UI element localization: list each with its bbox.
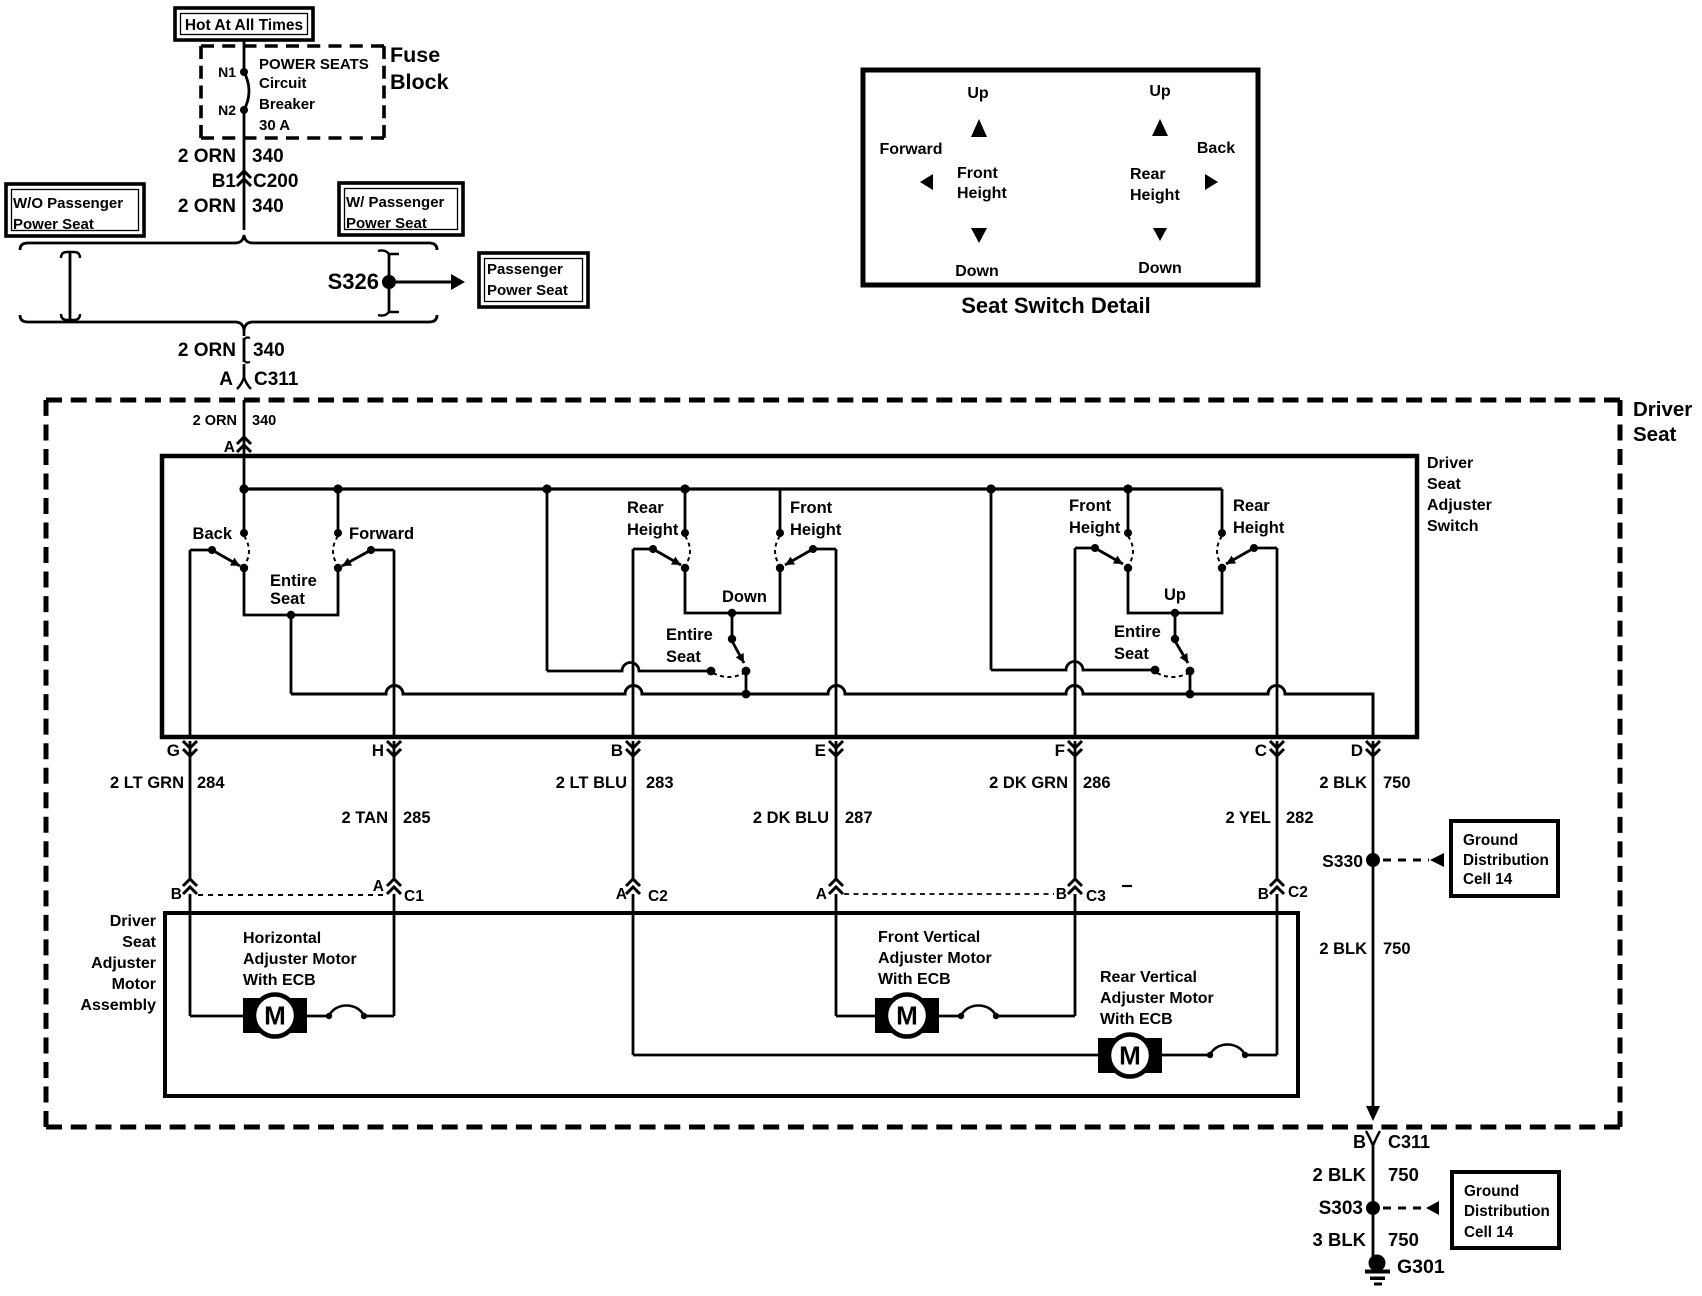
wire label 2 DK BLU 287 [753,809,873,827]
switch pin C [1255,741,1284,760]
svg-text:2 LT GRN: 2 LT GRN [110,774,184,792]
svg-text:2 ORN: 2 ORN [178,196,236,217]
switch linkage dashed (Rear Height up) [1217,536,1222,566]
wire 283: pin B to motor connector [632,741,635,879]
svg-text:Power Seat: Power Seat [13,216,94,233]
wire: group1 common drop [290,615,293,694]
label box: W/ Passenger Power Seat [339,183,463,235]
Entire Seat label (horizontal) [270,572,317,608]
switch pin D [1351,741,1380,760]
svg-text:C200: C200 [253,171,298,192]
switch pin F [1055,741,1082,760]
ECB (horizontal motor) [307,1006,394,1020]
back arrow [1205,174,1218,190]
wire label 2 ORN 340 (above C311) [178,340,285,361]
svg-text:Distribution: Distribution [1463,852,1549,869]
wire: down common to entire-seat switch [728,613,736,643]
wire label 2 BLK 750 (S330) [1319,940,1410,958]
wire label 2 ORN 340 (driver seat) [193,413,277,429]
svg-text:A: A [816,886,827,903]
ECB (front vertical motor) [939,1006,1075,1020]
svg-text:2 DK BLU: 2 DK BLU [753,809,829,827]
svg-text:B: B [611,741,623,760]
wire: down common U [681,564,784,617]
switch arm Rear Height down [649,545,681,565]
bus junction node (middle riser) [542,484,551,493]
svg-text:B1: B1 [212,171,237,192]
svg-text:285: 285 [403,809,431,827]
Entire Seat label (down) [666,626,713,666]
wire: arm to pin B [633,549,653,737]
switch arm Rear Height up [1226,544,1258,564]
wire: arm to pin F [1075,548,1095,737]
wire 286: pin F to motor connector [1074,741,1077,879]
svg-text:3 BLK: 3 BLK [1313,1229,1367,1250]
ground G301 label [1397,1256,1445,1278]
connector C1 pin A [373,878,424,905]
svg-text:Adjuster: Adjuster [1427,497,1492,514]
circuit breaker value label [259,56,369,134]
svg-text:Driver: Driver [1633,398,1692,421]
Horizontal Adjuster Motor With ECB label [243,930,357,989]
circuit breaker POWER SEATS 30A [240,68,249,114]
svg-text:Down: Down [1138,260,1182,277]
switch pin E [815,741,843,760]
svg-text:F: F [1055,741,1065,760]
svg-text:With ECB: With ECB [878,971,951,988]
wire: Back arm to pin G [190,550,212,737]
switch linkage dashed (Front Height down) [775,536,780,566]
wire: C2-A to rear vertical motor [633,894,1098,1055]
Forward contact label [349,525,414,543]
label box: W/O Passenger Power Seat [6,184,144,236]
wire: ECB to C2-B [1276,894,1279,1055]
ground G301 [1365,1255,1390,1286]
svg-text:Driver: Driver [110,913,156,930]
svg-text:282: 282 [1286,809,1314,827]
svg-text:With ECB: With ECB [1100,1011,1173,1028]
switch linkage dashed (Forward) [333,536,338,566]
pin N2 label [218,102,236,118]
svg-text:2 ORN: 2 ORN [178,146,236,167]
switch pin B [611,741,640,760]
connector C3 pin B [1056,879,1106,905]
svg-text:30 A: 30 A [259,117,290,134]
svg-text:B: B [1056,886,1067,903]
wire: bus to Front Height down contact [776,489,784,537]
svg-text:340: 340 [252,146,284,167]
svg-text:Height: Height [790,521,842,539]
bus junction node (Rear Height down) [680,484,689,493]
svg-text:Passenger: Passenger [487,261,563,278]
wire label 2 LT GRN 284 [110,774,225,792]
wire label 2 ORN 340 (below C200) [178,196,284,217]
svg-text:2 DK GRN: 2 DK GRN [989,774,1068,792]
svg-text:750: 750 [1388,1164,1419,1185]
wire: bus to Front Height up contact [1124,489,1132,537]
svg-text:A: A [616,886,627,903]
svg-text:Cell 14: Cell 14 [1463,871,1513,888]
bus junction node (Forward) [333,484,342,493]
connector C3 dashed link [844,893,1054,895]
wire 750: pin D to splice S330 [1372,741,1375,860]
dashed reference arrow to ground distribution [1383,853,1444,867]
switch arm Front Height down [785,545,817,565]
svg-text:284: 284 [197,774,225,792]
svg-text:Adjuster Motor: Adjuster Motor [878,950,992,967]
wire: up common U [1124,564,1226,617]
down arrow (rear) [1153,228,1167,241]
svg-text:Up: Up [1149,83,1171,100]
svg-text:Back: Back [1197,140,1235,157]
wire: breaker to C200 [243,110,246,230]
svg-text:2 YEL: 2 YEL [1225,809,1271,827]
svg-text:340: 340 [252,196,284,217]
Up label (front) [967,85,989,102]
Rear Vertical Adjuster Motor With ECB label [1100,969,1214,1028]
Front Vertical Adjuster Motor With ECB label [878,929,992,988]
svg-text:Seat: Seat [666,648,701,666]
svg-text:G: G [167,741,180,760]
Down label (rear) [1138,260,1182,277]
switch linkage dashed (Front Height up) [1128,536,1133,566]
svg-text:A: A [219,369,233,390]
fuse block name [390,43,449,94]
svg-text:Ground: Ground [1463,832,1518,849]
Up label (rear) [1149,83,1171,100]
horizontal adjuster motor M1 [243,995,307,1037]
fuse block dashed outline [201,46,384,138]
svg-text:Cell 14: Cell 14 [1464,1224,1514,1241]
wire: up common to entire-seat switch [1171,613,1179,643]
switch linkage dashed (Rear Height down) [685,536,690,566]
svg-text:2 ORN: 2 ORN [178,340,236,361]
svg-text:Seat: Seat [270,590,305,608]
wire: riser to entire-seat contact (down) [547,663,715,676]
svg-text:Height: Height [1069,519,1121,537]
svg-text:Seat: Seat [1633,423,1676,446]
wire: middle riser [546,489,549,671]
svg-text:Adjuster: Adjuster [91,955,156,972]
Up label [1164,586,1186,604]
wire: hot feed into circuit breaker [243,40,246,72]
svg-text:283: 283 [646,774,674,792]
Forward label [879,141,942,158]
svg-text:750: 750 [1383,940,1411,958]
svg-text:340: 340 [253,340,285,361]
svg-text:Circuit: Circuit [259,75,307,92]
svg-text:Height: Height [1130,187,1180,204]
svg-text:Front: Front [957,165,999,182]
wire 750: S330 to C311 pin B [1366,867,1380,1121]
svg-text:A: A [373,878,384,895]
label box: Passenger Power Seat [479,253,588,307]
svg-text:Forward: Forward [349,525,414,543]
svg-text:286: 286 [1083,774,1111,792]
wire label 2 DK GRN 286 [989,774,1110,792]
svg-text:Power Seat: Power Seat [487,282,568,299]
svg-text:Distribution: Distribution [1464,1203,1550,1220]
svg-text:Power Seat: Power Seat [346,215,427,232]
connector C311 pin B [1353,1131,1430,1152]
svg-text:750: 750 [1388,1229,1419,1250]
svg-text:W/ Passenger: W/ Passenger [346,194,445,211]
splice S326 connector stub [378,250,399,315]
wire: arm to pin E [813,549,836,737]
wire label 2 BLK 750 (upper) [1319,774,1410,792]
svg-text:Breaker: Breaker [259,96,315,113]
Rear Height label (down) [627,499,679,539]
connector C311 pin A [219,364,299,390]
switch arm entire seat (down) [732,641,750,675]
svg-text:Down: Down [722,588,767,606]
svg-text:POWER SEATS: POWER SEATS [259,56,369,73]
switch feed bus [244,487,1222,490]
svg-text:C3: C3 [1086,888,1106,905]
wire: Forward arm to pin H [371,550,394,737]
switch ground bus to pin D [291,686,1373,738]
Driver Seat name [1633,398,1692,446]
wire label 2 ORN 340 (above C200) [178,146,284,167]
wire: bus to Rear Height down contact [681,489,689,537]
svg-text:Entire: Entire [270,572,317,590]
svg-text:S330: S330 [1322,851,1363,871]
bus junction node (right riser) [986,484,995,493]
svg-text:B: B [1258,886,1269,903]
svg-text:Height: Height [957,185,1007,202]
svg-text:Front: Front [790,499,833,517]
rear vertical adjuster motor M3 [1098,1035,1162,1077]
svg-text:S303: S303 [1319,1198,1363,1219]
switch arm Forward [342,546,375,566]
svg-text:B: B [171,886,182,903]
in-line connector symbol (to C311) [244,338,250,363]
switch arm entire seat (up) [1175,641,1194,675]
wire 285: pin H to motor connector [393,741,396,879]
svg-text:Seat: Seat [1114,645,1149,663]
svg-text:E: E [815,741,826,760]
wire label 2 BLK 750 (lower) [1313,1164,1419,1185]
splice S303 [1319,1198,1380,1219]
svg-text:340: 340 [252,413,276,429]
svg-text:M: M [1119,1041,1141,1071]
wire: C1-B to horizontal motor [190,894,243,1016]
svg-text:With ECB: With ECB [243,972,316,989]
front vertical adjuster motor M2 [875,995,939,1037]
bus junction node (A feed) [239,484,248,493]
Down label [722,588,767,606]
svg-text:Up: Up [967,85,989,102]
svg-text:Ground: Ground [1464,1183,1519,1200]
Driver Seat Adjuster Switch outline [162,456,1417,737]
svg-text:N2: N2 [218,102,236,118]
bus junction node (Front Height up) [1123,484,1132,493]
svg-text:Adjuster Motor: Adjuster Motor [1100,990,1214,1007]
Back label [1197,140,1235,157]
wire 750: C311 to splice S303 [1372,1146,1375,1201]
svg-text:Seat: Seat [122,934,156,951]
svg-text:S326: S326 [328,269,379,294]
wire: right riser [990,489,993,670]
svg-text:Down: Down [955,263,999,280]
Back contact label [193,525,233,543]
Rear Height label (detail) [1130,166,1180,204]
connector C1 pin B [171,879,197,903]
wire: ECB to C1-A [393,894,396,1016]
switch arm Front Height up [1091,544,1123,564]
Seat Switch Detail title [961,293,1151,318]
Driver Seat harness dashed outline [46,400,1620,1127]
Driver Seat Adjuster Motor Assembly outline [165,913,1298,1096]
Entire Seat label (up) [1114,623,1161,663]
brace lower (wire options) [20,315,437,330]
down arrow (front) [971,228,987,243]
svg-text:M: M [264,1001,286,1031]
svg-text:Fuse: Fuse [390,43,440,67]
svg-text:C2: C2 [1288,884,1308,901]
wire: bus to Forward contact [334,489,342,537]
connector link mark [1122,885,1132,887]
switch linkage dashed (entire seat down) [713,673,744,677]
svg-text:Back: Back [193,525,233,543]
svg-text:Seat Switch Detail: Seat Switch Detail [961,293,1151,318]
svg-text:Horizontal: Horizontal [243,930,321,947]
svg-text:2 TAN: 2 TAN [342,809,388,827]
dashed reference arrow to ground distribution (S303) [1383,1201,1439,1215]
switch arm Back [208,546,240,566]
wire 284: pin G to motor connector [189,741,192,879]
svg-text:Up: Up [1164,586,1186,604]
svg-text:2 ORN: 2 ORN [193,413,237,429]
svg-text:750: 750 [1383,774,1411,792]
svg-text:Adjuster Motor: Adjuster Motor [243,951,357,968]
Driver Seat Adjuster Motor Assembly name [80,913,156,1014]
svg-text:C: C [1255,741,1267,760]
svg-text:Switch: Switch [1427,518,1479,535]
svg-text:Height: Height [627,521,679,539]
connector C3 pin A [816,879,843,903]
wire: entire-seat common U (group1) [240,564,342,619]
Down label (front) [955,263,999,280]
wire label 2 LT BLU 283 [556,774,674,792]
svg-text:2 BLK: 2 BLK [1313,1164,1367,1185]
wire: riser to entire-seat contact (up) [991,662,1159,675]
svg-text:Entire: Entire [666,626,713,644]
svg-text:2 BLK: 2 BLK [1319,940,1367,958]
pin N1 label [218,64,236,80]
switch pin H [372,741,401,760]
svg-text:D: D [1351,741,1363,760]
wire 287: pin E to motor connector [835,741,838,879]
connector C1 dashed link [198,894,386,896]
wire label 2 TAN 285 [342,809,431,827]
svg-text:Height: Height [1233,519,1285,537]
switch pin G [167,741,197,760]
svg-text:Block: Block [390,70,449,94]
svg-text:Hot At All Times: Hot At All Times [185,17,303,34]
up arrow (rear) [1152,119,1168,136]
svg-text:Forward: Forward [879,141,942,158]
svg-text:Entire: Entire [1114,623,1161,641]
switch pin A connector [224,437,251,456]
wire: bus corner to Rear Height up contact [1218,489,1226,537]
svg-text:Assembly: Assembly [80,997,156,1014]
wire label 2 YEL 282 [1225,809,1313,827]
svg-text:Rear: Rear [1233,497,1270,515]
svg-text:Rear: Rear [627,499,664,517]
label box: Ground Distribution Cell 14 (S303) [1452,1172,1559,1248]
svg-text:Driver: Driver [1427,455,1473,472]
svg-text:2 LT BLU: 2 LT BLU [556,774,627,792]
in-line connector symbol (W/O option) [61,252,80,320]
svg-text:C2: C2 [648,888,668,905]
splice S326 [328,269,396,294]
wire stub below brace [243,330,246,336]
svg-text:Rear Vertical: Rear Vertical [1100,969,1197,986]
wire: C3-A to front vertical motor [836,894,875,1016]
svg-text:M: M [896,1001,918,1031]
switch linkage dashed (entire seat up) [1157,673,1188,677]
forward arrow [920,174,933,190]
Driver Seat Adjuster Switch name [1427,455,1492,535]
svg-text:G301: G301 [1397,1256,1445,1278]
Rear Height label (up) [1233,497,1285,537]
wire: bus to Back contact [240,489,248,537]
label box: Ground Distribution Cell 14 (S330) [1451,821,1558,896]
svg-text:C311: C311 [254,369,299,390]
connector C200 pin B1 [212,171,299,192]
svg-text:N1: N1 [218,64,236,80]
svg-text:2 BLK: 2 BLK [1319,774,1367,792]
brace upper (wire options) [20,235,437,250]
svg-text:Front Vertical: Front Vertical [878,929,980,946]
wire: C311 to seat adjuster switch pin A [243,400,246,489]
svg-text:C311: C311 [1388,1132,1430,1152]
svg-text:Front: Front [1069,497,1112,515]
Front Height label (up) [1069,497,1121,537]
Front Height label (detail) [957,165,1007,202]
wire 282: pin C to motor connector [1276,741,1279,879]
Front Height label (down) [790,499,842,539]
svg-text:H: H [372,741,384,760]
wire: entire-seat down to ground bus [742,671,751,698]
arrow to Passenger Power Seat [396,274,465,290]
svg-text:A: A [224,439,235,456]
wire: arm to pin C [1254,548,1277,737]
label box: Hot At All Times [175,8,313,40]
up arrow (front) [971,119,987,137]
svg-text:Seat: Seat [1427,476,1461,493]
svg-text:C1: C1 [404,888,424,905]
wire 750: S303 to ground G301 [1372,1215,1375,1257]
wire label 3 BLK 750 [1313,1229,1419,1250]
connector C2 pin A [616,879,668,905]
wire: entire-seat up to ground bus [1186,671,1195,698]
Seat Switch Detail outline [863,70,1258,285]
switch linkage dashed (Back) [244,536,249,566]
svg-text:Rear: Rear [1130,166,1166,183]
svg-text:Motor: Motor [112,976,156,993]
svg-text:B: B [1353,1132,1366,1152]
wire: ECB to C3-B [1074,894,1077,1016]
splice S330 [1322,851,1380,871]
ECB (rear vertical motor) [1162,1045,1277,1059]
svg-text:W/O Passenger: W/O Passenger [13,195,123,212]
connector C2 pin B [1258,879,1308,903]
svg-text:287: 287 [845,809,873,827]
